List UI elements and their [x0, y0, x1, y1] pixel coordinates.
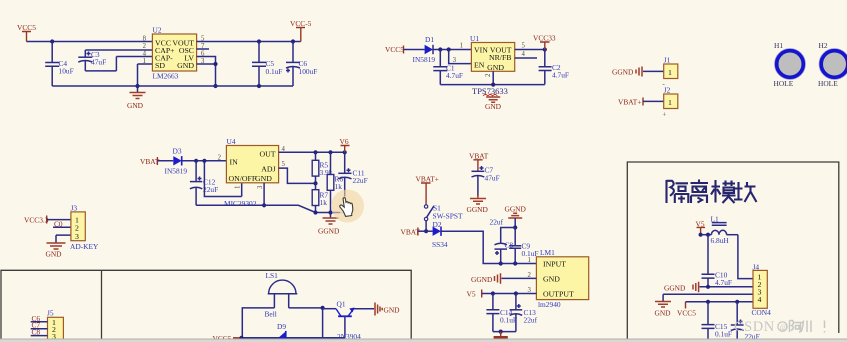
diode D3 IN5819: [165, 147, 188, 176]
wire VCC5 bottom row: [239, 336, 345, 340]
power port VCC5 (at J4 pin4): [677, 302, 696, 318]
mounting hole H1: [774, 41, 806, 88]
svg-text:0.1uF: 0.1uF: [266, 67, 283, 76]
mounting hole H2: [818, 41, 847, 88]
svg-text:IN5819: IN5819: [413, 55, 436, 64]
wire D1 to U1 VIN: [433, 47, 471, 51]
svg-text:CON4: CON4: [752, 308, 772, 317]
svg-text:22uF: 22uF: [353, 176, 368, 185]
svg-text:SD: SD: [155, 61, 165, 70]
svg-text:VBAT+: VBAT+: [416, 175, 439, 184]
wire right leg to Q1: [289, 306, 325, 310]
wire VBAT to D2: [418, 230, 433, 232]
net label C6: [31, 314, 48, 323]
wire VCC5 to D1: [404, 49, 425, 51]
svg-text:VCC-5: VCC-5: [290, 19, 312, 28]
svg-text:0.1uF: 0.1uF: [715, 330, 732, 339]
power port VCC5 (top-left): [17, 23, 36, 42]
svg-text:lm2940: lm2940: [538, 300, 561, 309]
wire U4 ADJ to divider: [279, 168, 316, 183]
wire GGND to LM1 pin2: [502, 277, 537, 279]
transistor Q1 2N3904: [323, 300, 362, 342]
pin 7 OSC stub: [197, 48, 209, 50]
wire U1 GND pin + bottom rail: [440, 71, 545, 86]
svg-text:VCC5: VCC5: [677, 309, 696, 318]
svg-text:SS34: SS34: [432, 240, 448, 249]
wire L1 to J4 pin1: [738, 235, 753, 279]
inductor L1: [701, 215, 738, 246]
svg-text:2: 2: [218, 155, 222, 162]
svg-text:47uF: 47uF: [91, 58, 106, 67]
connector J1: [663, 56, 678, 89]
power port VCC33: [533, 34, 556, 50]
power port VBAT (at D3): [140, 157, 160, 166]
svg-text:V5: V5: [467, 290, 476, 299]
capacitor C5: [252, 39, 283, 88]
resistor R6: [327, 152, 343, 214]
svg-text:GND: GND: [485, 102, 502, 111]
wire S1 to D2 row: [424, 221, 428, 234]
svg-text:3: 3: [75, 232, 79, 241]
ground GGND (under R7): [318, 213, 340, 236]
svg-text:1k: 1k: [335, 182, 343, 191]
net label C7: [31, 321, 48, 330]
port VCC3.3 (J3): [24, 216, 49, 225]
wire U2 pin5 VOUT rail: [197, 41, 301, 43]
module box 隔离模块: [627, 162, 839, 342]
svg-text:VBAT+: VBAT+: [618, 98, 641, 107]
capacitor C15: [702, 302, 733, 339]
capacitor C12 (polarized): [190, 161, 218, 206]
wire VCC5 to J4 pin4: [686, 300, 754, 304]
svg-text:4: 4: [522, 51, 526, 58]
svg-text:GGND: GGND: [612, 68, 634, 77]
svg-text:GND: GND: [127, 101, 144, 110]
svg-text:GGND: GGND: [318, 227, 340, 236]
wire IN tie to ON/OFF: [204, 161, 241, 197]
ground GND (under J3): [46, 243, 66, 259]
power port VCC5 (at D1): [385, 45, 404, 54]
capacitor C1: [433, 50, 463, 85]
svg-text:1: 1: [460, 43, 463, 50]
resistor R5: [312, 152, 333, 185]
wire D3 to U4 IN: [182, 159, 227, 163]
connector J5: [47, 309, 63, 342]
svg-text:H1: H1: [774, 41, 783, 50]
diode D9: [277, 322, 286, 342]
svg-text:GGND: GGND: [664, 284, 686, 293]
svg-text:4: 4: [758, 295, 762, 304]
bottom gray band: [0, 339, 847, 342]
svg-text:5: 5: [282, 161, 286, 168]
wire C0 to J3 pin2: [53, 226, 71, 228]
svg-text:22uf: 22uf: [490, 218, 504, 227]
wire V5 to LM1 OUTPUT: [482, 291, 537, 295]
net label C8: [31, 328, 48, 337]
wire LS1 legs: [274, 294, 288, 308]
svg-text:8: 8: [143, 36, 147, 43]
svg-text:4.7uF: 4.7uF: [715, 278, 732, 287]
svg-text:V6: V6: [340, 137, 349, 146]
svg-text:HOLE: HOLE: [818, 79, 838, 88]
svg-text:OUT: OUT: [259, 150, 275, 159]
capacitor C6 (polarized): [286, 39, 317, 86]
svg-text:GND: GND: [655, 309, 672, 318]
wire GGND tie to C8: [501, 228, 516, 245]
svg-text:J2: J2: [664, 86, 671, 95]
capacitor C8 (polarized): [490, 218, 514, 264]
svg-text:4: 4: [143, 51, 147, 58]
svg-text:GND: GND: [46, 250, 63, 259]
capacitor C7 (polarized): [472, 166, 500, 197]
svg-text:GND: GND: [255, 174, 272, 183]
buzzer LS1 Bell: [265, 271, 298, 319]
svg-text:LM2663: LM2663: [153, 72, 179, 81]
svg-text:ADJ: ADJ: [261, 165, 275, 174]
wire C3 top to U2 CAP+: [85, 49, 152, 51]
svg-text:U4: U4: [227, 137, 236, 146]
svg-text:VIN: VIN: [474, 46, 488, 55]
wire VCC5 rail to U2 pin 8: [27, 41, 153, 43]
svg-text:100uF: 100uF: [299, 67, 318, 76]
svg-text:GGND: GGND: [467, 205, 489, 214]
pin 4 NR/FB stub: [515, 57, 537, 59]
svg-text:1k: 1k: [320, 198, 328, 207]
svg-text:ON/OFF: ON/OFF: [229, 174, 257, 183]
svg-text:VCC5: VCC5: [385, 45, 404, 54]
port GGND (J1): [612, 67, 642, 77]
capacitor C14: [486, 294, 517, 332]
connector J3: [70, 204, 99, 252]
svg-text:VCC33: VCC33: [533, 34, 556, 43]
diode D1 IN5819: [413, 35, 436, 64]
svg-text:5: 5: [522, 43, 526, 50]
ground GND (under U1): [485, 97, 502, 111]
svg-text:D1: D1: [425, 35, 434, 44]
svg-text:1: 1: [143, 58, 146, 65]
wire Q1 emitter to GND: [354, 308, 375, 310]
wire D2 to LM1 INPUT: [441, 231, 536, 265]
wire VCC3.3 to J3 pin1: [47, 219, 71, 221]
svg-text:HOLE: HOLE: [774, 79, 794, 88]
svg-text:@: @: [780, 323, 787, 332]
wire U4 GND pin to rail: [262, 183, 266, 208]
svg-text:IN: IN: [230, 158, 239, 167]
svg-text:2: 2: [485, 73, 492, 77]
power port VBAT (at C7): [469, 152, 489, 171]
svg-text:47uF: 47uF: [485, 174, 500, 183]
wire GGND to J4 pin2: [700, 285, 754, 289]
capacitor C16 (polarized): [731, 302, 760, 341]
svg-text:J1: J1: [664, 56, 671, 65]
capacitor C10: [702, 233, 733, 287]
ground GND (under U2): [127, 86, 146, 110]
wire U1 VOUT to VCC33: [515, 47, 547, 51]
wire GND bottom rail: [52, 85, 293, 87]
svg-text:OUTPUT: OUTPUT: [543, 290, 574, 299]
title 隔离模块: [667, 180, 757, 204]
svg-text:22uf: 22uf: [524, 316, 538, 325]
svg-text:1: 1: [235, 186, 242, 189]
svg-text:4.7uF: 4.7uF: [446, 71, 463, 80]
resistor R7: [312, 183, 328, 214]
svg-text:VCC3.3: VCC3.3: [24, 216, 49, 225]
svg-text:1: 1: [668, 98, 672, 107]
ground GGND (under C7): [467, 194, 489, 214]
svg-text:D2: D2: [433, 220, 442, 229]
wire C3 bottom to U2 CAP-: [116, 56, 152, 58]
node junction C4/rail: [50, 39, 54, 43]
capacitor C11 (polarized): [338, 152, 367, 212]
wire EN link: [449, 50, 472, 64]
svg-text:MIC29302: MIC29302: [224, 199, 257, 208]
svg-text:H2: H2: [819, 41, 828, 50]
svg-text:2: 2: [143, 43, 147, 50]
wire left leg to VCC5 row: [242, 308, 274, 338]
svg-text:IN5819: IN5819: [165, 167, 188, 176]
connector J2: [663, 86, 678, 119]
svg-text:CSDN: CSDN: [734, 319, 775, 335]
watermark CSDN: [734, 319, 787, 335]
wire C14/C13 bottom rail: [493, 330, 516, 334]
comment TPS73633 with error squiggle: [472, 86, 508, 96]
svg-text:AD-KEY: AD-KEY: [70, 242, 99, 251]
power port V5 (at LM1): [467, 290, 482, 299]
wire LV/GND tie down to rail: [197, 57, 218, 89]
svg-text:0.1uF: 0.1uF: [500, 316, 517, 325]
power port VBAT+ (at S1): [416, 175, 439, 205]
port GGND (LM1 GND): [471, 273, 501, 284]
svg-text:+: +: [663, 112, 667, 119]
svg-text:EN: EN: [474, 61, 485, 70]
wire U4 OUT rail: [279, 150, 347, 154]
svg-text:1: 1: [528, 257, 531, 264]
port GGND (J4 pin2): [664, 282, 699, 293]
wire VBAT+ to J2: [643, 100, 664, 102]
svg-text:NR/FB: NR/FB: [489, 53, 512, 62]
svg-text:GGND: GGND: [505, 205, 527, 214]
regulator U4 MIC29302: [218, 137, 286, 208]
node junction SD/GND rail: [135, 84, 139, 88]
power port VCC-5: [290, 19, 312, 42]
capacitor C4: [45, 42, 74, 87]
capacitor C9: [509, 228, 538, 264]
svg-text:4.7uF: 4.7uF: [552, 71, 569, 80]
svg-text:U1: U1: [470, 34, 479, 43]
capacitor C13 (polarized): [510, 294, 538, 332]
power port (bar, bottom cut): [494, 332, 508, 339]
svg-text:22uF: 22uF: [203, 185, 218, 194]
svg-text:6.8uH: 6.8uH: [711, 236, 730, 245]
wire GND to J4 pin3: [663, 294, 753, 301]
wire VBAT to D3: [157, 160, 173, 162]
wire junction down to D9 row: [322, 308, 324, 338]
ground GND (under J4 pin3): [655, 302, 672, 318]
svg-text:GND: GND: [177, 61, 194, 70]
svg-text:Bell: Bell: [265, 310, 277, 319]
svg-text:3: 3: [453, 57, 457, 64]
svg-text:Q1: Q1: [337, 300, 346, 309]
svg-text:LS1: LS1: [266, 271, 279, 280]
port VBAT+ (J2): [618, 98, 643, 107]
op-amp U2 LM2663: [143, 26, 205, 81]
sheet box (bottom-left): [1, 270, 411, 342]
svg-text:INPUT: INPUT: [543, 260, 566, 269]
watermark 阿川！: [790, 321, 825, 333]
svg-text:D9: D9: [277, 322, 286, 331]
ground GND (at Q1, rotated): [375, 303, 400, 316]
svg-text:J5: J5: [47, 309, 54, 318]
power port VCC5 (bottom): [213, 334, 242, 342]
switch S1 SW-SPST: [424, 204, 463, 221]
power port V5 (at L1): [696, 220, 706, 237]
svg-text:U2: U2: [153, 26, 162, 35]
svg-text:J4: J4: [753, 263, 760, 272]
wire U2 SD to GND rail: [138, 64, 153, 86]
power port V6: [340, 137, 350, 152]
wire J3 pin3 to GND: [56, 235, 71, 242]
svg-text:LM1: LM1: [540, 248, 555, 257]
svg-text:GND: GND: [487, 63, 504, 72]
net label C0: [54, 220, 63, 229]
svg-text:1: 1: [668, 68, 672, 77]
svg-text:GND: GND: [384, 306, 401, 315]
svg-text:GND: GND: [543, 275, 560, 284]
power port VBAT (at D2): [401, 228, 421, 237]
svg-text:GGND: GGND: [471, 275, 493, 284]
wire GND rail with diagonal: [196, 205, 345, 212]
svg-text:3: 3: [257, 185, 264, 189]
svg-text:J3: J3: [71, 204, 78, 213]
regulator LM1 lm2940: [528, 248, 589, 309]
wire GGND to J1: [643, 70, 664, 72]
capacitor C3 (polarized): [78, 50, 116, 71]
connector J4 CON4: [752, 263, 772, 318]
regulator U1 TPS73633: [453, 34, 526, 77]
cursor hand with glow: [331, 190, 364, 223]
capacitor C2: [539, 50, 569, 85]
diode D2 SS34: [432, 220, 448, 249]
svg-text:VCC5: VCC5: [17, 23, 36, 32]
ground GGND (inverted, above C9): [505, 205, 527, 230]
svg-text:D3: D3: [173, 147, 182, 156]
svg-text:10uF: 10uF: [59, 67, 74, 76]
